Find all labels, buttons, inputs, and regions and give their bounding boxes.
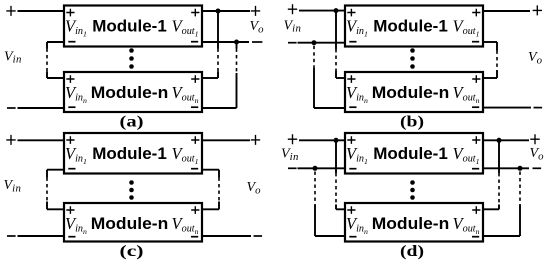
terminal - d output -: [533, 167, 542, 169]
wire (dashed continuation) a output + drop: [217, 49, 219, 72]
wire d output + bus: [483, 139, 529, 141]
wire b Module-n + input stub: [336, 77, 345, 79]
svg-text:Module-1: Module-1: [92, 17, 167, 36]
wire c input series vertical lower: [46, 202, 48, 210]
wire (dashed continuation) d output + drop: [498, 173, 500, 205]
ellipsis dots (more modules) c: [129, 180, 134, 185]
pin - a Module-1 output: [191, 41, 198, 43]
terminal - b output -: [534, 107, 543, 109]
wire a output + drop lower: [217, 72, 219, 79]
wire b input + drop upper: [335, 11, 337, 49]
wire d Module-n - output stub: [483, 235, 520, 237]
pin - b Module-n input: [349, 106, 356, 108]
terminal + a output +: [251, 6, 260, 16]
wire a series link vertical upper: [46, 42, 48, 49]
wire b input - bus: [298, 42, 346, 44]
wire d Module-n + input stub: [336, 208, 345, 210]
wire a input + to Module-1: [18, 10, 65, 12]
wire b input - drop lower: [313, 68, 315, 108]
junction node a output + bus tap: [216, 9, 221, 14]
wire a output + drop upper: [217, 11, 219, 49]
pin - d Module-n output: [472, 236, 479, 238]
pin - c Module-1 output: [191, 168, 198, 170]
terminal + b input +: [288, 4, 297, 14]
wire a series link vertical lower: [46, 72, 48, 79]
svg-text:Module-n: Module-n: [372, 214, 450, 233]
wire b series link vertical lower: [496, 70, 498, 78]
pin + b Module-1 output: [472, 9, 480, 17]
wire a series link top stub: [47, 41, 64, 43]
wire c input series bottom stub: [47, 208, 64, 210]
terminal + d input +: [288, 134, 297, 144]
wire d input + drop lower: [335, 205, 337, 210]
terminal + d output +: [530, 134, 539, 144]
pin - d Module-n input: [349, 236, 356, 238]
wire c input - to Module-n: [18, 235, 65, 237]
wire c output series bottom stub: [202, 208, 219, 210]
wire d input - bus: [298, 167, 346, 169]
svg-text:(a): (a): [120, 114, 144, 131]
wire b series link top stub: [483, 41, 497, 43]
pin + c Module-1 output: [191, 136, 199, 144]
terminal - d input -: [288, 167, 297, 169]
pin + d Module-1 output: [472, 136, 480, 144]
svg-text:Module-n: Module-n: [91, 83, 169, 102]
pin - c Module-1 input: [68, 168, 75, 170]
wire d input - drop lower: [314, 205, 316, 237]
svg-text:(d): (d): [400, 243, 424, 260]
terminal + a input +: [6, 6, 15, 16]
svg-text:(c): (c): [120, 243, 144, 260]
junction node d output - bus tap: [518, 166, 523, 171]
wire (dashed continuation) b input + drop: [335, 49, 337, 71]
junction node b input + bus tap: [334, 8, 339, 13]
wire d input + bus: [299, 139, 345, 141]
wire a output + bus: [202, 10, 250, 12]
wire c output - wire: [202, 235, 251, 237]
pin + a Module-n input: [66, 75, 74, 83]
wire d Module-n + output stub: [483, 208, 499, 210]
module box Module-1 (c): [64, 133, 202, 174]
terminal + c input +: [6, 135, 15, 145]
pin + a Module-n output: [191, 75, 199, 83]
pin + a Module-1 input: [66, 9, 74, 17]
module box Module-1 (d): [345, 133, 483, 174]
svg-text:Module-1: Module-1: [373, 144, 448, 163]
wire c output + wire: [202, 139, 250, 141]
pin + d Module-1 input: [347, 136, 355, 144]
pin - b Module-1 output: [472, 41, 479, 43]
wire (dashed continuation) d output - drop: [519, 172, 521, 205]
wire (dashed continuation) d input - drop: [314, 172, 316, 205]
pin - a Module-n output: [191, 106, 198, 108]
pin + c Module-n input: [66, 206, 74, 214]
pin + b Module-n input: [347, 75, 355, 83]
pin - a Module-1 input: [68, 41, 75, 43]
pin + d Module-n input: [347, 206, 355, 214]
module box Module-n (a): [64, 72, 202, 112]
module box Module-1 (a): [64, 6, 202, 47]
wire a input - to Module-n: [18, 107, 65, 109]
junction node d input + bus tap: [334, 138, 339, 143]
wire d output + drop upper: [498, 140, 500, 173]
wire b Module-n - input stub: [314, 107, 345, 109]
wire b output + wire: [483, 10, 530, 12]
wire c output series vertical upper: [218, 170, 220, 178]
wire a output - bus: [202, 41, 249, 43]
wire (dashed continuation) a output - drop: [236, 49, 238, 74]
wire c output series top stub: [202, 169, 219, 171]
terminal - c output -: [254, 235, 263, 237]
svg-text:Module-n: Module-n: [91, 214, 169, 233]
wire (dashed continuation) c input series: [46, 178, 48, 202]
ellipsis dots (more modules) a: [129, 48, 134, 53]
pin + b Module-n output: [472, 75, 480, 83]
pin - c Module-n output: [191, 236, 198, 238]
wire c input series vertical upper: [46, 170, 48, 178]
module box Module-n (b): [345, 72, 483, 112]
wire (dashed continuation) c output series: [218, 178, 220, 202]
pin + c Module-n output: [191, 206, 199, 214]
svg-text:Module-n: Module-n: [372, 83, 450, 102]
wire (dashed continuation) d input + drop: [335, 173, 337, 205]
svg-text:Module-1: Module-1: [92, 144, 167, 163]
svg-text:Module-1: Module-1: [373, 17, 448, 36]
terminal + c output +: [251, 135, 260, 145]
junction node b input - bus tap: [312, 40, 317, 45]
wire d Module-n - input stub: [315, 235, 345, 237]
wire b input + drop lower: [335, 71, 337, 78]
pin + b Module-1 input: [347, 9, 355, 17]
terminal - c input -: [7, 235, 16, 237]
pin - a Module-n input: [68, 106, 75, 108]
pin + a Module-1 output: [191, 9, 199, 17]
terminal - a input -: [7, 107, 16, 109]
wire (dashed continuation) b input - drop: [313, 46, 315, 68]
terminal + b output +: [533, 5, 542, 15]
module box Module-n (c): [64, 203, 202, 242]
ellipsis dots (more modules) b: [410, 48, 415, 53]
wire c input series top stub: [47, 169, 64, 171]
junction node d output + bus tap: [497, 138, 502, 143]
wire d output - drop lower: [519, 205, 521, 237]
wire d input + drop upper: [335, 140, 337, 173]
ellipsis dots (more modules) d: [410, 180, 415, 185]
pin - c Module-n input: [68, 236, 75, 238]
junction node a output - bus tap: [234, 40, 239, 45]
wire a output - drop upper: [236, 42, 238, 49]
wire a Module-n - output stub: [202, 107, 237, 109]
wire d output - bus: [483, 167, 529, 169]
wire d output + drop lower: [498, 205, 500, 210]
wire c input + to Module-1: [18, 139, 65, 141]
module box Module-n (d): [345, 203, 483, 242]
wire b series link vertical upper: [496, 42, 498, 51]
pin - d Module-1 output: [472, 168, 479, 170]
wire b input + bus: [299, 10, 345, 12]
pin - b Module-n output: [472, 106, 479, 108]
wire b output - wire: [483, 107, 531, 109]
pin + c Module-1 input: [66, 136, 74, 144]
module box Module-1 (b): [345, 6, 483, 47]
svg-text:(b): (b): [400, 114, 424, 131]
pin - d Module-1 input: [349, 168, 356, 170]
pin - b Module-1 input: [349, 41, 356, 43]
wire (dashed continuation) b series link: [496, 51, 498, 71]
wire a Module-n + output stub: [202, 77, 218, 79]
wire a output - drop lower: [236, 73, 238, 108]
junction node d input - bus tap: [313, 166, 318, 171]
pin + d Module-n output: [472, 206, 480, 214]
wire (dashed continuation) a series link: [46, 49, 48, 72]
wire a series link bottom stub: [47, 77, 64, 79]
terminal - b input -: [288, 42, 297, 44]
terminal - a output -: [252, 41, 262, 43]
wire b series link bottom stub: [483, 77, 497, 79]
wire c output series vertical lower: [218, 202, 220, 210]
